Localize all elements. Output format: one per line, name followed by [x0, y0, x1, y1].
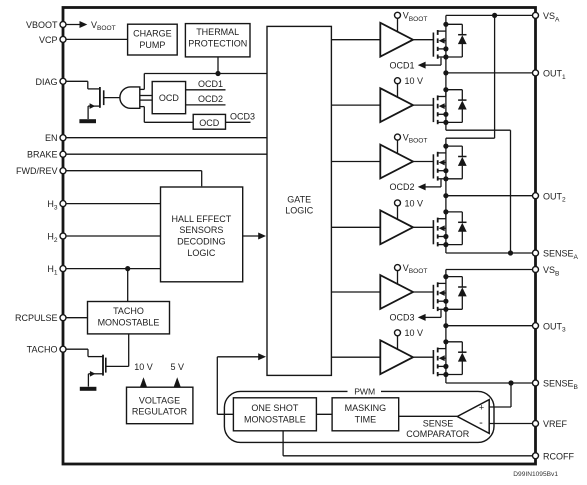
- gate driver ls1: buffer triangle: [380, 88, 413, 122]
- gate driver hs3: supply terminal wire: [397, 270, 399, 284]
- power DMOS ls1: channel segments: [437, 95, 439, 100]
- power DMOS hs2: gate lead: [413, 161, 433, 163]
- transistor DIAG: gate bar: [103, 90, 105, 105]
- power DMOS hs2: channel segments: [437, 152, 439, 157]
- power DMOS ls1: body stub: [438, 113, 446, 115]
- pin circle FWD/REV: [60, 168, 66, 174]
- wire: tacho monostable to tacho transistor gate: [128, 334, 130, 367]
- logic gate U1 (diag combiner, AND shape facing left): [120, 87, 140, 108]
- gate driver hs1: supply terminal circle: [395, 12, 401, 18]
- wire: gate input 2 from OCD block: [140, 95, 152, 97]
- transistor DIAG: gate lead to logic gate: [104, 97, 120, 99]
- ground symbol (TACHO transistor): [80, 387, 97, 391]
- svg-text:-: -: [479, 417, 483, 429]
- svg-text:OCD: OCD: [199, 118, 220, 128]
- power DMOS ls3: source stub: [438, 374, 446, 376]
- power DMOS hs2: body arrow: [439, 160, 445, 166]
- power DMOS ls1: body lead: [444, 105, 446, 107]
- wire: one-shot output up to gate logic with arrow: [217, 413, 233, 415]
- junction: SENSE_A branch: [508, 250, 513, 255]
- wire: H1 to hall decode: [63, 268, 160, 270]
- svg-text:MONOSTABLE: MONOSTABLE: [244, 415, 306, 425]
- gate driver hs2: supply terminal wire: [397, 140, 399, 154]
- pin circle H1: [60, 266, 66, 272]
- junction: hs2 drain / diode cathode: [443, 144, 448, 149]
- ground symbol (DIAG transistor): [79, 119, 96, 123]
- gate driver hs2: supply terminal circle: [395, 134, 401, 140]
- block THERMAL PROTECTION: [185, 24, 250, 57]
- transistor DIAG: source lead with arrow: [88, 105, 100, 107]
- power DMOS hs2: drain-source vertical: [445, 146, 447, 179]
- 5 V regulator output arrow: [176, 379, 178, 387]
- svg-text:LOGIC: LOGIC: [187, 248, 216, 258]
- junction: OUT1 node: [443, 70, 448, 75]
- wire: SENSE_B down to comparator + input: [510, 383, 512, 407]
- power DMOS ls3: drain stub: [438, 348, 446, 350]
- transistor TACHO: source lead with arrow: [88, 373, 103, 375]
- body diode of hs2: cathode bar: [458, 156, 466, 158]
- wire: EN to gate logic: [63, 137, 267, 139]
- transistor DIAG open-drain: drain step: [87, 81, 89, 89]
- svg-text:10 V: 10 V: [405, 76, 424, 86]
- svg-text:DECODING: DECODING: [177, 237, 226, 247]
- power DMOS ls3: gate lead: [413, 356, 433, 358]
- transistor TACHO: gate bar: [105, 358, 107, 373]
- wire: OCD1 net: [186, 89, 226, 91]
- power DMOS hs3: body arrow: [439, 290, 445, 296]
- junction: ls1 source / diode anode: [443, 120, 448, 125]
- body diode of hs1: triangle: [458, 35, 467, 44]
- svg-text:5 V: 5 V: [170, 362, 184, 372]
- power DMOS ls2: source stub: [438, 244, 446, 246]
- gate driver ls2: input wire from gate logic: [331, 226, 380, 228]
- gate driver ls2: supply terminal wire: [397, 206, 399, 220]
- power DMOS hs2: body stub: [438, 170, 446, 172]
- svg-text:LOGIC: LOGIC: [285, 206, 314, 216]
- wire: gate input 3 from OCD block: [140, 99, 152, 101]
- junction: ls1 drain / diode cathode: [443, 87, 448, 92]
- svg-text:HALL EFFECT: HALL EFFECT: [172, 214, 232, 224]
- pin circle right y=269.5: [533, 267, 539, 273]
- arrow: VBOOT internal rail: [80, 21, 88, 28]
- power DMOS ls3: channel segments: [437, 348, 439, 353]
- block OCD (overcurrent detect 1-2): [152, 82, 185, 114]
- body diode of ls1: cathode bar: [458, 99, 466, 101]
- body diode of ls3: cathode bar: [458, 351, 466, 353]
- power DMOS hs1: source stub: [438, 56, 446, 58]
- body diode of ls1: branch wires: [446, 89, 462, 91]
- junction: hs1 body: [443, 46, 448, 51]
- pin circle EN: [60, 135, 66, 141]
- wire: hall decode output to gate logic with arrow: [242, 235, 259, 237]
- power DMOS hs3: channel segments: [437, 282, 439, 287]
- body diode of hs3: branch wires: [446, 276, 462, 278]
- power DMOS ls1: source stub: [438, 121, 446, 123]
- junction: OUT2 node: [443, 193, 448, 198]
- svg-text:OCD3: OCD3: [389, 313, 414, 323]
- pin circle BRAKE: [60, 151, 66, 157]
- junction: ls3 source / diode anode: [443, 372, 448, 377]
- power DMOS hs3: body stub: [438, 300, 446, 302]
- junction: VSA rail branch: [492, 13, 497, 18]
- power DMOS ls3: body lead: [444, 357, 446, 359]
- svg-text:CHARGE: CHARGE: [133, 28, 172, 38]
- power DMOS hs1: body arrow: [439, 38, 445, 44]
- svg-text:10 V: 10 V: [405, 328, 424, 338]
- power DMOS hs1: body stub: [438, 48, 446, 50]
- pin circle VBOOT: [60, 22, 66, 28]
- svg-text:OCD2: OCD2: [389, 182, 414, 192]
- svg-text:VOLTAGE: VOLTAGE: [139, 395, 180, 405]
- power DMOS ls2: channel segments: [437, 218, 439, 223]
- junction: ls2 body: [443, 234, 448, 239]
- junction: hs3 drain / diode cathode: [443, 274, 448, 279]
- svg-text:RCPULSE: RCPULSE: [15, 313, 58, 323]
- body diode of hs3: triangle: [458, 287, 467, 296]
- wire: SENSE_A line: [445, 245, 447, 253]
- svg-text:REGULATOR: REGULATOR: [132, 407, 188, 417]
- power DMOS hs3: body lead: [444, 292, 446, 294]
- junction: ls3 drain / diode cathode: [443, 339, 448, 344]
- power DMOS ls3: body stub: [438, 365, 446, 367]
- power DMOS ls1: drain-source vertical: [445, 90, 447, 123]
- wire: OCD2 net: [186, 104, 226, 106]
- junction: ls1 body: [443, 112, 448, 117]
- power DMOS hs1: channel segments: [437, 30, 439, 35]
- wire: one-shot to masking time: [316, 413, 332, 415]
- wire: H2 to hall decode: [63, 235, 160, 237]
- power DMOS hs1: gate lead: [413, 39, 433, 41]
- block OCD (overcurrent detect 3): [193, 114, 225, 129]
- gate driver hs1: buffer triangle: [380, 23, 413, 57]
- gate driver ls3: supply terminal circle: [395, 330, 401, 336]
- pin circle VCP: [60, 36, 66, 42]
- wire: SENSE_B line: [445, 375, 447, 384]
- wire: VSB rail to hs3 drain: [446, 269, 536, 271]
- OCD2 arrow head: [418, 183, 426, 190]
- svg-text:DIAG: DIAG: [35, 77, 57, 87]
- svg-text:+: +: [479, 402, 484, 412]
- gate driver ls1: supply terminal wire: [397, 84, 399, 98]
- svg-text:PWM: PWM: [354, 386, 375, 396]
- block MASKING TIME: [332, 398, 399, 431]
- svg-text:BRAKE: BRAKE: [27, 150, 58, 160]
- svg-text:EN: EN: [45, 133, 58, 143]
- wire: VCP to charge pump: [63, 38, 128, 40]
- gate driver ls1: input wire from gate logic: [331, 104, 380, 106]
- pin circle RCPULSE: [60, 315, 66, 321]
- power DMOS hs3: source stub: [438, 308, 446, 310]
- power DMOS ls3: gate bar: [432, 350, 434, 374]
- gate driver ls1: supply terminal circle: [395, 78, 401, 84]
- wire: RCPULSE to tacho monostable: [63, 317, 88, 319]
- pin circle right y=325.7: [533, 323, 539, 329]
- wire: VBOOT pin stub: [63, 24, 80, 26]
- body diode of ls1: triangle: [458, 101, 467, 110]
- svg-text:SENSE: SENSE: [423, 419, 454, 429]
- svg-text:OCD2: OCD2: [198, 94, 223, 104]
- body diode of hs2: triangle: [458, 157, 467, 166]
- pin circle right y=195.7: [533, 193, 539, 199]
- PWM current-control group rounded box: [224, 391, 494, 442]
- svg-text:GATE: GATE: [287, 195, 311, 205]
- wire: FWD/REV to hall decode logic: [63, 170, 202, 172]
- svg-text:OCD3: OCD3: [230, 112, 255, 122]
- svg-text:FWD/REV: FWD/REV: [16, 166, 58, 176]
- gate driver ls2: supply terminal circle: [395, 200, 401, 206]
- pin circle right y=253.0: [533, 250, 539, 256]
- gate driver ls3: input wire from gate logic: [331, 356, 380, 358]
- junction: hs3 source / diode anode: [443, 307, 448, 312]
- wire: gate input 4 from OCD3 block: [140, 106, 145, 108]
- junction: hs1 drain / diode cathode: [443, 22, 448, 27]
- block TACHO MONOSTABLE: [88, 302, 170, 334]
- power DMOS ls2: body arrow: [439, 225, 445, 231]
- power DMOS ls2: body stub: [438, 236, 446, 238]
- svg-text:VCP: VCP: [39, 35, 58, 45]
- wire: ls1 source to SENSE_A: [445, 122, 447, 130]
- svg-text:COMPARATOR: COMPARATOR: [406, 429, 470, 439]
- wire: BRAKE to gate logic: [63, 153, 267, 155]
- wire: DIAG to clamp transistor: [63, 80, 88, 82]
- wire: TACHO pin to open-drain transistor: [63, 348, 88, 350]
- body diode of hs3: cathode bar: [458, 286, 466, 288]
- wire: OUT2 node: [445, 179, 447, 219]
- junction: ls2 drain / diode cathode: [443, 209, 448, 214]
- junction: hs2 source / diode anode: [443, 176, 448, 181]
- wire: masking time to comparator output: [399, 415, 458, 417]
- power DMOS hs2: drain stub: [438, 152, 446, 154]
- power DMOS ls1: body arrow: [439, 103, 445, 109]
- junction: ls2 source / diode anode: [443, 242, 448, 247]
- svg-text:TIME: TIME: [355, 415, 377, 425]
- power DMOS ls1: gate lead: [413, 104, 433, 106]
- svg-text:THERMAL: THERMAL: [196, 27, 239, 37]
- OCD1 arrow head: [418, 62, 426, 69]
- wire: thermal protection output: [217, 57, 219, 74]
- junction: hs2 body: [443, 168, 448, 173]
- 10 V regulator output arrow: [143, 379, 145, 387]
- svg-text:MASKING: MASKING: [345, 403, 387, 413]
- power DMOS hs3: drain-source vertical: [445, 277, 447, 310]
- svg-text:PUMP: PUMP: [139, 40, 165, 50]
- wire: gate input 1 from thermal/top net: [140, 88, 145, 90]
- power DMOS ls3: drain-source vertical: [445, 342, 447, 375]
- svg-text:OCD1: OCD1: [389, 60, 414, 70]
- op-amp sense comparator triangle: [457, 400, 489, 434]
- block GATE LOGIC: [267, 26, 331, 375]
- svg-text:MONOSTABLE: MONOSTABLE: [98, 317, 160, 327]
- pin circle H2: [60, 233, 66, 239]
- junction: hs3 body: [443, 299, 448, 304]
- wire: H3 to hall decode: [63, 203, 160, 205]
- wire: H1 branch down to tacho monostable: [127, 269, 129, 302]
- pin circle right y=72.9: [533, 70, 539, 76]
- wire: OUT1 node: [445, 57, 447, 97]
- svg-text:10 V: 10 V: [405, 198, 424, 208]
- wire: VSA rail branch down to hs2 drain: [494, 15, 496, 138]
- power DMOS ls2: drain-source vertical: [445, 212, 447, 245]
- pin circle right y=383.0: [533, 380, 539, 386]
- body diode of ls3: branch wires: [446, 341, 462, 343]
- power DMOS hs2: source stub: [438, 178, 446, 180]
- junction: ls3 body: [443, 364, 448, 369]
- power DMOS ls2: gate lead: [413, 226, 433, 228]
- OCD2 sense tap wire: [440, 180, 442, 187]
- svg-text:TACHO: TACHO: [113, 306, 144, 316]
- power DMOS hs2: body lead: [444, 162, 446, 164]
- OCD3 sense tap wire: [440, 310, 442, 317]
- power DMOS ls2: body lead: [444, 227, 446, 229]
- power DMOS ls3: body arrow: [439, 355, 445, 361]
- gate driver hs3: supply terminal circle: [395, 265, 401, 271]
- gate driver hs2: input wire from gate logic: [331, 161, 380, 163]
- power DMOS ls2: drain stub: [438, 218, 446, 220]
- OCD3 arrow head: [418, 314, 426, 321]
- gate driver ls3: buffer triangle: [380, 340, 413, 374]
- power DMOS hs1: body lead: [444, 40, 446, 42]
- power DMOS hs2: gate bar: [432, 154, 434, 178]
- power DMOS ls1: gate bar: [432, 98, 434, 122]
- power DMOS ls1: drain stub: [438, 96, 446, 98]
- wire: OUT3 node: [445, 309, 447, 348]
- svg-text:PROTECTION: PROTECTION: [188, 39, 247, 49]
- body diode of hs1: cathode bar: [458, 34, 466, 36]
- wire: OCD3 net: [226, 121, 251, 123]
- power DMOS hs1: drain stub: [438, 30, 446, 32]
- junction: thermal protection / top net: [215, 71, 220, 76]
- wire: VSA rail to hs1 drain: [446, 14, 536, 16]
- svg-text:OCD: OCD: [159, 93, 180, 103]
- power DMOS hs3: drain stub: [438, 282, 446, 284]
- transistor TACHO: channel bar: [102, 355, 104, 376]
- power DMOS hs3: gate lead: [413, 291, 433, 293]
- junction: hs1 source / diode anode: [443, 54, 448, 59]
- block ONE SHOT MONOSTABLE: [233, 398, 316, 431]
- svg-text:RCOFF: RCOFF: [543, 451, 574, 461]
- junction: OUT3 node: [443, 323, 448, 328]
- gate driver ls3: supply terminal wire: [397, 336, 399, 350]
- pin circle DIAG: [60, 78, 66, 84]
- body diode of ls2: triangle: [458, 223, 467, 232]
- gate driver hs3: input wire from gate logic: [331, 291, 380, 293]
- power DMOS hs1: gate bar: [432, 33, 434, 57]
- body diode of ls2: cathode bar: [458, 221, 466, 223]
- gate driver hs1: supply terminal wire: [397, 18, 399, 32]
- block HALL EFFECT SENSORS DECODING LOGIC: [161, 187, 243, 282]
- svg-text:ONE SHOT: ONE SHOT: [251, 403, 299, 413]
- pin circle right y=423.5: [533, 421, 539, 427]
- svg-text:VBOOT: VBOOT: [26, 20, 58, 30]
- svg-text:D99IN1095Bv1: D99IN1095Bv1: [513, 471, 558, 478]
- block CHARGE PUMP: [128, 24, 178, 55]
- junction: H1 / tacho branch: [125, 266, 130, 271]
- svg-text:VREF: VREF: [543, 419, 568, 429]
- gate driver hs2: buffer triangle: [380, 145, 413, 179]
- body diode of ls2: branch wires: [446, 211, 462, 213]
- pin circle H3: [60, 201, 66, 207]
- body diode of hs1: branch wires: [446, 23, 462, 25]
- svg-text:10 V: 10 V: [134, 362, 153, 372]
- gate driver hs1: input wire from gate logic: [331, 39, 380, 41]
- wire: VREF to comparator - input: [489, 423, 535, 425]
- pin circle right y=15.4: [533, 12, 539, 18]
- svg-text:TACHO: TACHO: [27, 345, 58, 355]
- OCD1 sense tap wire: [440, 58, 442, 65]
- svg-text:OCD1: OCD1: [198, 79, 223, 89]
- body diode of hs2: branch wires: [446, 145, 462, 147]
- block VOLTAGE REGULATOR: [127, 387, 193, 424]
- transistor DIAG: channel bar: [99, 87, 101, 108]
- body diode of ls3: triangle: [458, 353, 467, 362]
- junction: SENSE_B branch to comparator: [508, 380, 513, 385]
- power DMOS hs1: drain-source vertical: [445, 24, 447, 57]
- svg-text:SENSORS: SENSORS: [179, 225, 223, 235]
- power DMOS ls2: gate bar: [432, 220, 434, 244]
- IC boundary box: [63, 8, 536, 465]
- pin circle TACHO: [60, 346, 66, 352]
- power DMOS hs3: gate bar: [432, 285, 434, 309]
- pin circle right y=455.8: [533, 453, 539, 459]
- wire: top net (thermal protection to gate logic): [144, 73, 267, 75]
- wire: RCOFF to one-shot monostable: [282, 431, 284, 456]
- gate driver hs3: buffer triangle: [380, 275, 413, 309]
- gate driver ls2: buffer triangle: [380, 210, 413, 244]
